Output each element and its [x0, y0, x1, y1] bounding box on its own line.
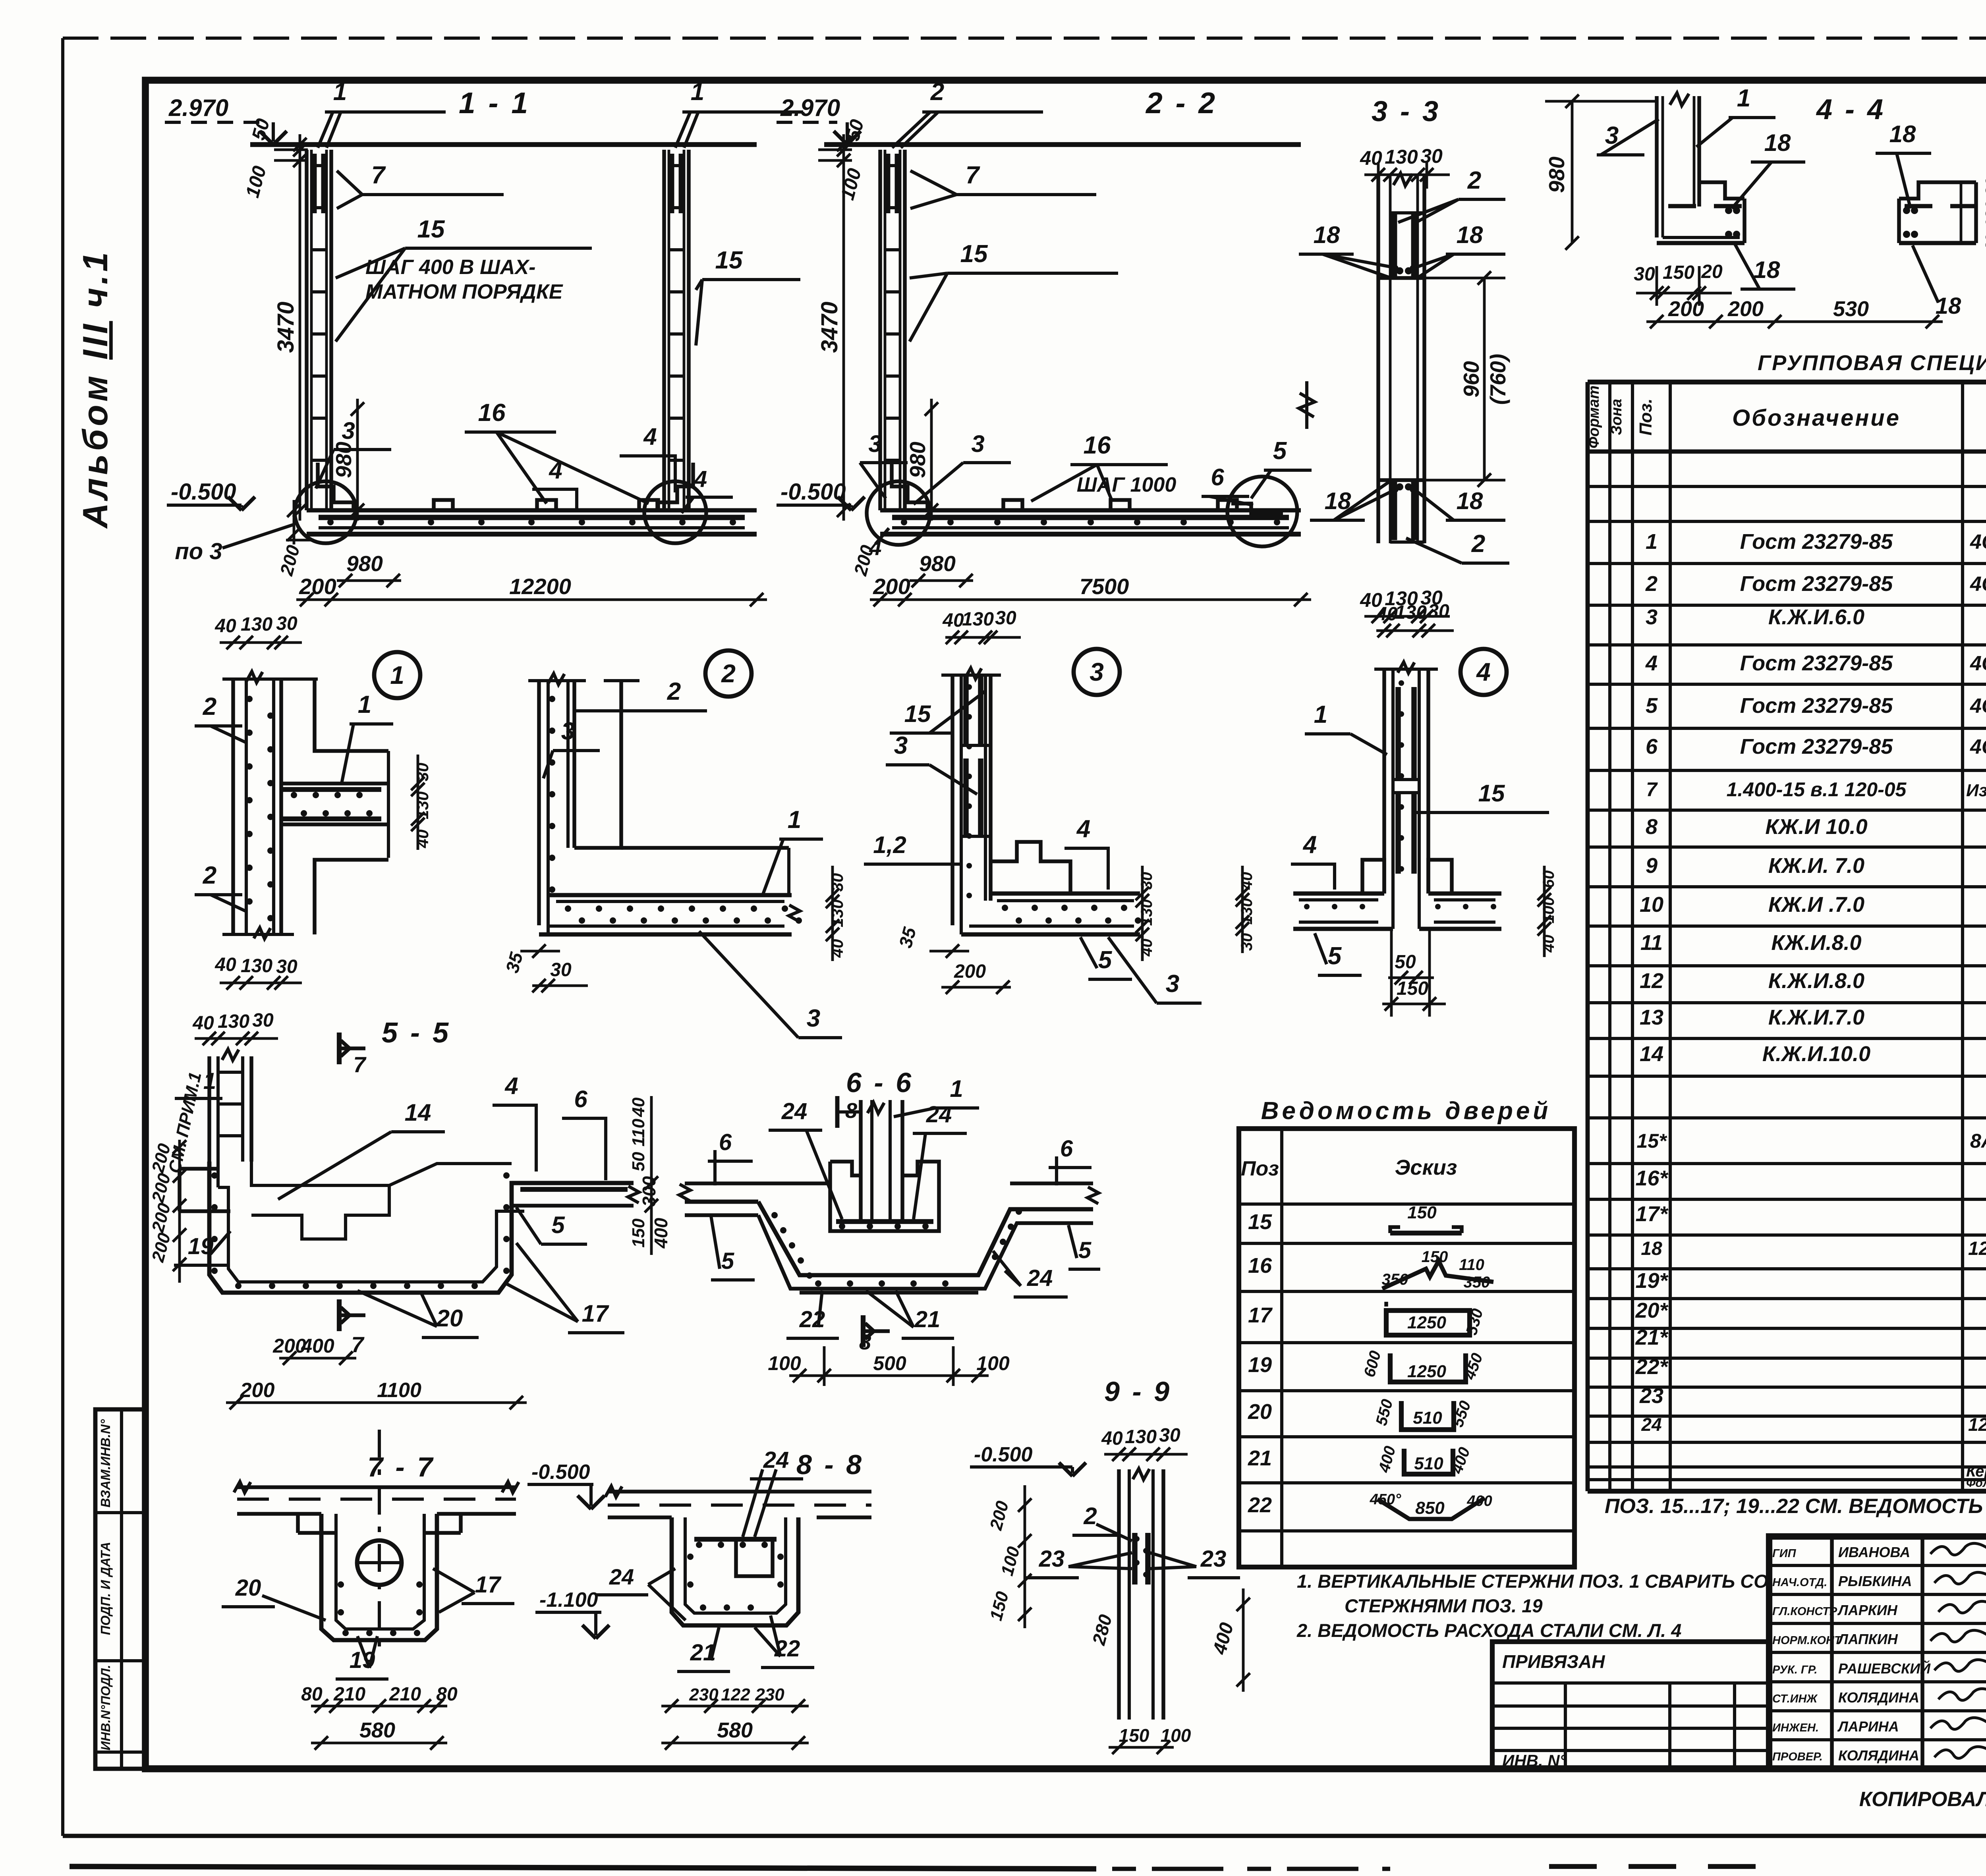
svg-text:1: 1: [390, 661, 404, 689]
svg-text:КЖ.И. 7.0: КЖ.И. 7.0: [1768, 854, 1864, 878]
4-4 wall crack top: [1670, 93, 1689, 106]
title block signature rows: [1769, 1564, 1986, 1567]
svg-text:ЛАПКИН: ЛАПКИН: [1837, 1631, 1898, 1647]
svg-text:СТ.ИНЖ: СТ.ИНЖ: [1772, 1693, 1818, 1705]
svg-text:980: 980: [905, 442, 930, 478]
section 2-2 wall: [878, 150, 882, 510]
detail 4 wall: [1382, 669, 1386, 894]
svg-text:-1.100: -1.100: [539, 1588, 598, 1612]
svg-text:15*: 15*: [1636, 1130, 1667, 1152]
svg-text:2: 2: [930, 78, 944, 106]
5-5 inner shape 14: [251, 1162, 389, 1239]
3-3 top mesh segment: [1391, 213, 1397, 278]
svg-text:1: 1: [333, 78, 347, 106]
6-6 right slab top: [1010, 1181, 1093, 1185]
door sketch 19: [1390, 1353, 1466, 1382]
svg-text:ВЗАМ.ИНВ.N°: ВЗАМ.ИНВ.N°: [98, 1419, 113, 1507]
svg-text:4: 4: [1076, 815, 1090, 843]
svg-text:Зона: Зона: [1608, 399, 1625, 435]
svg-text:980: 980: [346, 551, 383, 576]
svg-text:Гост 23279-85: Гост 23279-85: [1740, 694, 1893, 718]
svg-text:6 - 6: 6 - 6: [846, 1067, 914, 1098]
detail 4 wall mesh: [1395, 687, 1401, 780]
svg-text:18: 18: [1457, 488, 1483, 514]
4-4 dims 200 200 530: [1646, 320, 1943, 323]
svg-text:23: 23: [1639, 1384, 1663, 1408]
svg-text:СТЕРЖНЯМИ ПОЗ. 19: СТЕРЖНЯМИ ПОЗ. 19: [1345, 1595, 1543, 1616]
svg-text:30: 30: [1159, 1425, 1180, 1446]
svg-text:510: 510: [1413, 1408, 1442, 1428]
svg-text:Альбом III ч.1: Альбом III ч.1: [75, 249, 115, 529]
section 1-1 left wall: [305, 150, 309, 510]
8-8 top slab: [608, 1490, 871, 1494]
svg-text:4: 4: [1645, 651, 1658, 675]
4-4 right slab end: [1974, 182, 1978, 243]
svg-text:ПРИВЯЗАН: ПРИВЯЗАН: [1502, 1651, 1605, 1672]
7-7 pit dots: [342, 1630, 349, 1636]
svg-text:2: 2: [203, 693, 216, 720]
svg-text:17: 17: [475, 1572, 502, 1598]
svg-text:2: 2: [1083, 1503, 1097, 1529]
svg-text:22*: 22*: [1635, 1355, 1669, 1379]
svg-text:3: 3: [1646, 605, 1658, 629]
dim 980: [356, 399, 359, 521]
svg-text:200: 200: [299, 574, 336, 599]
svg-text:КЖ.И 10.0: КЖ.И 10.0: [1765, 815, 1867, 839]
svg-text:3: 3: [971, 430, 984, 457]
svg-text:КОПИРОВАЛ:: КОПИРОВАЛ:: [1859, 1788, 1986, 1811]
svg-text:4: 4: [549, 457, 562, 484]
detail 1 lower outline: [315, 860, 388, 934]
svg-text:110: 110: [629, 1118, 648, 1146]
6-6 left slab: [685, 1181, 830, 1185]
9-9 bottom dims: [1109, 1746, 1174, 1749]
door table grid: [1239, 1129, 1575, 1567]
svg-text:210: 210: [333, 1684, 365, 1705]
svg-text:30: 30: [276, 613, 298, 634]
svg-text:МАТНОМ ПОРЯДКЕ: МАТНОМ ПОРЯДКЕ: [365, 280, 563, 303]
svg-text:15: 15: [1248, 1210, 1272, 1234]
detail 2 circle: [705, 650, 752, 697]
svg-text:3: 3: [342, 417, 355, 444]
6-6 funnel profile: [758, 1202, 1093, 1275]
6-6 bottom dims: [789, 1374, 989, 1377]
svg-text:Гост 23279-85: Гост 23279-85: [1740, 530, 1893, 554]
svg-text:60: 60: [1540, 870, 1557, 888]
svg-text:12АIII-Гост5781-82 ℓ=1500: 12АIII-Гост5781-82 ℓ=1500: [1968, 1238, 1986, 1259]
svg-text:Изделие закладное Мн105-6: Изделие закладное Мн105-6: [1966, 781, 1986, 800]
svg-text:4: 4: [643, 423, 657, 450]
svg-text:30: 30: [995, 608, 1016, 629]
svg-text:16: 16: [1248, 1254, 1272, 1278]
svg-text:100: 100: [976, 1352, 1010, 1374]
svg-text:150: 150: [1407, 1203, 1437, 1222]
svg-text:3: 3: [894, 732, 908, 759]
svg-text:400: 400: [651, 1218, 671, 1249]
svg-text:980: 980: [331, 442, 356, 478]
detail 4 steps: [1362, 860, 1384, 894]
svg-text:40: 40: [1376, 604, 1398, 625]
detail 1 upper concrete outline: [315, 679, 388, 751]
svg-text:130: 130: [962, 609, 994, 630]
svg-text:3: 3: [1166, 970, 1179, 998]
svg-text:30: 30: [1420, 145, 1443, 167]
svg-text:21: 21: [1248, 1446, 1272, 1470]
svg-text:Формат: Формат: [1586, 386, 1602, 449]
svg-text:30: 30: [276, 956, 298, 977]
5-5 wall rungs: [218, 1071, 243, 1074]
svg-text:ГЛ.КОНСТР: ГЛ.КОНСТР: [1772, 1605, 1837, 1618]
8-8 bottom dims: [661, 1705, 809, 1708]
svg-text:980: 980: [919, 551, 956, 576]
svg-text:20: 20: [1248, 1400, 1272, 1424]
svg-text:2: 2: [203, 862, 216, 889]
9-9 wall: [1117, 1469, 1121, 1720]
bottom smudge line: [70, 1866, 1096, 1869]
svg-text:20*: 20*: [1635, 1299, 1669, 1322]
svg-text:1. ВЕРТИКАЛЬНЫЕ СТЕРЖНИ ПОЗ.: 1. ВЕРТИКАЛЬНЫЕ СТЕРЖНИ ПОЗ. 1 СВАРИТЬ С…: [1297, 1571, 1768, 1592]
svg-text:1.400-15 в.1 120-05: 1.400-15 в.1 120-05: [1727, 778, 1907, 801]
svg-text:960: 960: [1459, 361, 1484, 398]
6-6 center pipe: [859, 1100, 863, 1222]
section 1-1 dim 3470: [299, 134, 301, 521]
svg-text:16: 16: [1084, 432, 1111, 459]
detail 3 wall mesh bars: [963, 675, 969, 745]
svg-text:4: 4: [1302, 831, 1317, 859]
svg-text:150: 150: [1422, 1248, 1448, 1266]
svg-text:Гост 23279-85: Гост 23279-85: [1740, 651, 1893, 675]
svg-text:200: 200: [954, 961, 986, 982]
svg-text:3470: 3470: [273, 301, 299, 353]
svg-text:580: 580: [717, 1718, 753, 1742]
7-7 bottom dims: [311, 1705, 447, 1708]
svg-text:130: 130: [1125, 1426, 1157, 1448]
svg-text:5: 5: [551, 1212, 565, 1238]
svg-text:1100: 1100: [377, 1379, 421, 1402]
svg-text:18: 18: [1641, 1238, 1662, 1259]
svg-text:30: 30: [1982, 178, 1986, 196]
svg-text:6: 6: [1646, 735, 1658, 759]
svg-text:200: 200: [240, 1379, 275, 1402]
left stamp strip: [95, 1409, 145, 1769]
svg-text:4С: 4С: [1970, 695, 1986, 718]
8-8 inner bars: [694, 1537, 777, 1542]
svg-text:5: 5: [1646, 694, 1658, 718]
svg-text:К.Ж.И.10.0: К.Ж.И.10.0: [1762, 1042, 1870, 1066]
privyazan table: [1492, 1642, 1769, 1769]
door sketch 22: [1377, 1498, 1485, 1519]
svg-text:18: 18: [1457, 222, 1483, 248]
svg-text:4: 4: [504, 1073, 518, 1099]
svg-text:2: 2: [1471, 530, 1485, 558]
svg-text:23: 23: [1039, 1546, 1065, 1572]
svg-text:7: 7: [351, 1332, 365, 1357]
detail 4 circle: [1461, 649, 1507, 695]
svg-text:19: 19: [188, 1233, 214, 1259]
svg-text:40: 40: [192, 1013, 214, 1034]
svg-text:15: 15: [904, 701, 931, 727]
svg-text:2. ВЕДОМОСТЬ РАСХОДА СТАЛИ: 2. ВЕДОМОСТЬ РАСХОДА СТАЛИ СМ. Л. 4: [1296, 1620, 1681, 1641]
svg-text:4С: 4С: [1970, 735, 1986, 759]
svg-text:40: 40: [413, 830, 432, 849]
svg-text:130: 130: [1385, 146, 1418, 168]
svg-text:К.Ж.И.7.0: К.Ж.И.7.0: [1768, 1006, 1864, 1029]
svg-text:8: 8: [859, 1330, 871, 1354]
4-4 floor right piece: [1899, 182, 1976, 199]
svg-text:122: 122: [721, 1685, 750, 1704]
svg-text:210: 210: [389, 1684, 421, 1705]
svg-text:80: 80: [301, 1684, 323, 1705]
svg-text:400: 400: [1466, 1493, 1492, 1509]
svg-text:20: 20: [1701, 261, 1723, 282]
6-6 section marker 8 bottom: [861, 1315, 865, 1347]
svg-text:4С: 4С: [1970, 531, 1986, 554]
svg-text:ГИП: ГИП: [1772, 1547, 1797, 1560]
svg-text:10: 10: [1640, 893, 1663, 917]
svg-text:50: 50: [629, 1152, 648, 1171]
3-3 wall column: [1376, 174, 1380, 543]
svg-text:9: 9: [1646, 854, 1658, 878]
svg-text:1250: 1250: [1407, 1362, 1446, 1381]
svg-text:ШАГ 400 В ШАХ-: ШАГ 400 В ШАХ-: [365, 256, 536, 279]
svg-text:1: 1: [203, 1068, 216, 1094]
svg-text:30: 30: [1138, 872, 1155, 890]
svg-text:16: 16: [478, 399, 506, 427]
svg-text:980: 980: [1544, 156, 1569, 193]
svg-text:Гост 23279-85: Гост 23279-85: [1740, 572, 1893, 596]
svg-text:100: 100: [768, 1352, 801, 1374]
svg-text:200: 200: [1668, 297, 1704, 321]
svg-text:5 - 5: 5 - 5: [382, 1017, 451, 1049]
svg-text:5: 5: [1098, 946, 1113, 974]
svg-text:18: 18: [1936, 293, 1961, 319]
svg-text:4С: 4С: [1970, 652, 1986, 675]
svg-text:580: 580: [359, 1718, 395, 1742]
svg-text:1: 1: [788, 806, 801, 834]
svg-text:1250: 1250: [1407, 1313, 1446, 1332]
svg-text:24: 24: [926, 1102, 952, 1127]
svg-text:40: 40: [1138, 939, 1155, 957]
7-7 pit: [321, 1514, 437, 1640]
section 2-2 right circle node: [1227, 477, 1297, 546]
sheet outer border: [63, 37, 1986, 40]
svg-text:ПОЗ. 15...17; 19...22 СМ. ВЕД: ПОЗ. 15...17; 19...22 СМ. ВЕДОМОСТЬ ДВЕР…: [1605, 1494, 1986, 1518]
svg-text:6: 6: [719, 1129, 732, 1155]
svg-text:24: 24: [609, 1564, 634, 1589]
svg-text:ЛАРИНА: ЛАРИНА: [1837, 1718, 1899, 1735]
5-5 diagonal hatch top: [389, 1164, 512, 1185]
svg-text:150: 150: [1663, 262, 1694, 283]
7-7 top slab: [237, 1485, 516, 1489]
svg-text:4: 4: [694, 466, 707, 492]
svg-text:150: 150: [1397, 978, 1428, 999]
svg-text:15: 15: [417, 216, 445, 243]
svg-text:110: 110: [1459, 1256, 1484, 1274]
svg-text:ПОДП. И ДАТА: ПОДП. И ДАТА: [98, 1542, 113, 1635]
svg-text:22: 22: [1248, 1493, 1272, 1517]
svg-text:КЖ.И.8.0: КЖ.И.8.0: [1771, 931, 1861, 955]
svg-text:-0.500: -0.500: [974, 1443, 1033, 1466]
detail 3 circle: [1074, 649, 1120, 695]
svg-text:21*: 21*: [1635, 1326, 1669, 1349]
5-5 section marker 7 bottom: [337, 1299, 342, 1331]
svg-text:24: 24: [781, 1098, 808, 1124]
door sketch 21: [1404, 1449, 1453, 1474]
svg-text:Фольгоизол. марки ФГ Гост2042: Фольгоизол. марки ФГ Гост20423-84: [1966, 1476, 1986, 1490]
svg-text:18: 18: [1314, 222, 1340, 248]
dim 980 2-2: [930, 399, 933, 521]
svg-text:ШАГ 1000: ШАГ 1000: [1077, 473, 1177, 496]
svg-text:Гост 23279-85: Гост 23279-85: [1740, 735, 1893, 759]
7-7 circle sleeve: [357, 1540, 402, 1585]
svg-text:2: 2: [667, 678, 681, 705]
svg-text:НОРМ.КОНТ: НОРМ.КОНТ: [1772, 1634, 1842, 1647]
svg-text:13: 13: [1640, 1006, 1663, 1029]
svg-text:КОЛЯДИНА: КОЛЯДИНА: [1838, 1747, 1919, 1764]
9-9 wall mesh middle: [1132, 1533, 1138, 1585]
svg-text:16*: 16*: [1635, 1166, 1669, 1190]
svg-text:К.Ж.И.8.0: К.Ж.И.8.0: [1768, 969, 1864, 993]
svg-text:24: 24: [1641, 1414, 1661, 1435]
svg-text:7500: 7500: [1080, 574, 1129, 599]
svg-text:18: 18: [1754, 257, 1780, 283]
6-6 center U box: [830, 1162, 939, 1231]
svg-text:130: 130: [1982, 201, 1986, 228]
svg-text:ПРОВЕР.: ПРОВЕР.: [1772, 1751, 1823, 1763]
svg-text:30: 30: [1428, 601, 1449, 622]
svg-text:1 - 1: 1 - 1: [459, 86, 530, 120]
svg-text:30: 30: [1634, 264, 1655, 285]
section 1-1 top slab line: [250, 142, 757, 147]
detail 3 slab: [991, 892, 1140, 896]
svg-text:24: 24: [763, 1447, 789, 1473]
svg-text:-0.500: -0.500: [531, 1461, 590, 1484]
4-4 wall: [1655, 96, 1659, 237]
svg-text:20: 20: [235, 1575, 261, 1601]
svg-text:КЖ.И .7.0: КЖ.И .7.0: [1768, 893, 1864, 917]
svg-text:500: 500: [873, 1352, 906, 1374]
svg-text:5: 5: [1078, 1237, 1092, 1263]
svg-text:Поз.: Поз.: [1636, 398, 1656, 435]
svg-text:17*: 17*: [1635, 1202, 1669, 1226]
detail 2 inner corner: [574, 681, 621, 848]
door sketch 20: [1401, 1401, 1454, 1430]
svg-text:ИНЖЕН.: ИНЖЕН.: [1772, 1722, 1819, 1734]
svg-text:-0.500: -0.500: [171, 479, 236, 505]
svg-text:5: 5: [1273, 437, 1287, 465]
svg-text:7: 7: [371, 162, 386, 189]
svg-text:21: 21: [914, 1307, 941, 1332]
svg-text:1: 1: [1646, 530, 1658, 554]
svg-text:3: 3: [807, 1005, 820, 1032]
svg-text:7: 7: [353, 1052, 367, 1077]
detail 1 slab branch: [281, 782, 388, 786]
svg-text:1: 1: [1314, 701, 1327, 728]
svg-text:130: 130: [218, 1011, 249, 1032]
svg-text:15: 15: [715, 247, 743, 274]
svg-text:450°: 450°: [1370, 1491, 1401, 1508]
svg-text:7 - 7: 7 - 7: [367, 1451, 435, 1482]
svg-text:8: 8: [1646, 815, 1658, 839]
svg-text:4С: 4С: [1970, 573, 1986, 596]
svg-text:8АI-Гост5781-82 ℓ=260: 8АI-Гост5781-82 ℓ=260: [1970, 1130, 1986, 1152]
5-5 wall top: [207, 1056, 211, 1162]
section 2-2 floor: [880, 508, 1301, 513]
svg-text:19: 19: [1248, 1353, 1272, 1377]
svg-text:20: 20: [436, 1305, 463, 1332]
svg-text:40: 40: [828, 939, 846, 958]
svg-text:40: 40: [629, 1097, 648, 1117]
svg-text:3: 3: [561, 718, 575, 745]
svg-text:18: 18: [1889, 121, 1916, 147]
4-4 floor left piece: [1699, 182, 1745, 199]
svg-text:Поз: Поз: [1241, 1157, 1279, 1180]
3-3 bottom mesh segment: [1391, 480, 1397, 540]
svg-text:17: 17: [582, 1300, 609, 1327]
detail 3 step right: [991, 842, 1070, 894]
svg-text:40: 40: [1540, 935, 1557, 953]
5-5 pit dots: [235, 1283, 241, 1289]
svg-text:3: 3: [868, 430, 881, 457]
svg-text:6: 6: [574, 1086, 587, 1112]
spec table grid: [1586, 382, 1590, 1491]
svg-text:ИНВ. N°: ИНВ. N°: [1502, 1751, 1567, 1770]
6-6 funnel dots: [771, 1212, 778, 1218]
svg-text:30: 30: [252, 1010, 274, 1031]
svg-text:100: 100: [1161, 1725, 1191, 1746]
svg-text:по 3: по 3: [175, 538, 222, 564]
svg-text:17: 17: [1248, 1303, 1273, 1327]
svg-text:40: 40: [1982, 234, 1986, 253]
svg-text:2 - 2: 2 - 2: [1145, 86, 1217, 120]
door sketch 17: [1386, 1310, 1470, 1335]
detail 2 slab: [548, 893, 792, 897]
svg-text:530: 530: [1833, 297, 1869, 321]
svg-text:150: 150: [629, 1218, 648, 1248]
svg-text:(760): (760): [1486, 354, 1510, 405]
svg-text:30: 30: [550, 959, 572, 980]
svg-text:6: 6: [1060, 1136, 1073, 1162]
svg-text:2.970: 2.970: [168, 95, 228, 121]
svg-text:40: 40: [214, 954, 236, 975]
svg-text:400: 400: [301, 1335, 334, 1357]
svg-text:12: 12: [1640, 969, 1663, 993]
svg-text:1: 1: [691, 78, 704, 106]
5-5 section marker 7 top: [337, 1033, 342, 1064]
svg-text:15: 15: [960, 240, 988, 268]
detail 1 circle: [374, 652, 420, 698]
svg-text:2: 2: [1645, 572, 1658, 596]
3-3 crack top: [1393, 173, 1412, 186]
svg-text:24: 24: [1027, 1265, 1053, 1291]
svg-text:4: 4: [1476, 658, 1491, 686]
svg-text:40: 40: [214, 616, 236, 637]
detail 1 wall: [231, 679, 235, 934]
svg-text:РУК. ГР.: РУК. ГР.: [1772, 1664, 1817, 1676]
title block outer: [1769, 1536, 1986, 1769]
section 1-1 corner circles: [295, 481, 357, 543]
svg-text:230: 230: [755, 1685, 784, 1704]
svg-text:3: 3: [1090, 658, 1104, 686]
svg-text:ЛАРКИН: ЛАРКИН: [1837, 1602, 1898, 1618]
svg-text:9 - 9: 9 - 9: [1104, 1376, 1172, 1407]
svg-text:15: 15: [1478, 780, 1505, 807]
svg-text:5: 5: [721, 1248, 734, 1274]
svg-text:130: 130: [241, 955, 272, 977]
svg-text:4 - 4: 4 - 4: [1816, 94, 1886, 125]
svg-text:850: 850: [1415, 1498, 1445, 1518]
svg-text:30: 30: [1238, 933, 1256, 951]
